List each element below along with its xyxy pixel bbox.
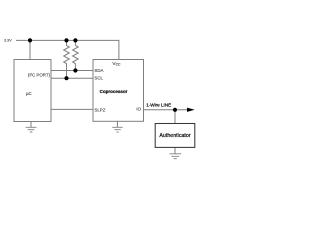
IC U2 coprocessor box bbox=[93, 60, 144, 122]
label SLPZ pin bbox=[94, 108, 105, 113]
junction node on rail at uC drop bbox=[28, 38, 32, 42]
wire coprocessor ground stub bbox=[116, 121, 118, 127]
svg-text:1-Wire LINE: 1-Wire LINE bbox=[146, 102, 171, 107]
svg-text:SDA: SDA bbox=[94, 68, 103, 73]
svg-text:(I²C PORT): (I²C PORT) bbox=[28, 73, 51, 78]
svg-text:Authenticator: Authenticator bbox=[159, 133, 190, 139]
label (I2C PORT) pin of uC bbox=[28, 73, 51, 78]
svg-text:Coprocessor: Coprocessor bbox=[100, 89, 128, 94]
label 3.3V bbox=[4, 38, 12, 42]
wire SDA bbox=[51, 70, 93, 72]
junction node on rail at R2 bbox=[73, 38, 77, 42]
junction node R1 on SCL bbox=[64, 76, 68, 80]
wire 1-Wire junction to authenticator bbox=[174, 110, 176, 124]
ground symbol for uC bbox=[26, 127, 37, 132]
label SCL pin bbox=[94, 76, 103, 81]
wire authenticator ground stub bbox=[174, 148, 176, 154]
label uC bbox=[26, 91, 32, 96]
IC U3 authenticator box bbox=[155, 124, 195, 148]
ground symbol for coprocessor bbox=[112, 127, 123, 132]
ground symbol for authenticator bbox=[170, 154, 182, 159]
wire IO 1-Wire line bbox=[144, 109, 189, 111]
wire SLPZ bbox=[51, 108, 93, 110]
svg-text:SCL: SCL bbox=[94, 76, 103, 81]
wire SCL bbox=[51, 77, 93, 79]
label 1-Wire LINE bbox=[146, 102, 171, 107]
svg-text:IO: IO bbox=[136, 106, 141, 111]
svg-text:3.3V: 3.3V bbox=[4, 38, 12, 42]
svg-text:SLPZ: SLPZ bbox=[94, 108, 105, 113]
wire 3.3V to uC VCC bbox=[29, 40, 31, 59]
IC U1 microcontroller box bbox=[14, 60, 51, 122]
wire uC ground stub bbox=[30, 121, 32, 127]
resistor R1 (SCL pull-up) bbox=[64, 40, 70, 78]
label Authenticator bbox=[159, 133, 190, 139]
wire 3.3V power rail bbox=[16, 40, 119, 59]
label Coprocessor bbox=[100, 89, 128, 94]
label IO pin bbox=[136, 106, 141, 111]
svg-text:VCC: VCC bbox=[112, 61, 121, 67]
arrowhead on 1-Wire line bbox=[187, 108, 193, 111]
junction node on rail at R1 bbox=[64, 38, 68, 42]
resistor R2 (SDA pull-up) bbox=[73, 40, 79, 70]
label SDA pin bbox=[94, 68, 103, 73]
junction node R2 on SDA bbox=[73, 68, 77, 72]
svg-text:µC: µC bbox=[26, 91, 32, 96]
junction node on 1-Wire line bbox=[173, 108, 177, 112]
label VCC pin bbox=[112, 61, 121, 67]
